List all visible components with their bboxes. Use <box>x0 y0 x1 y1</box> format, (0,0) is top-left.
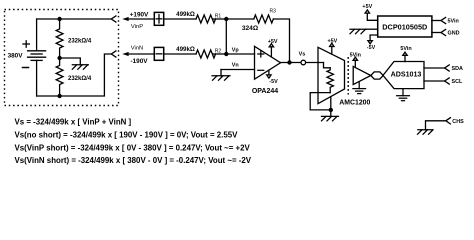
AMC output triangle <box>353 66 371 84</box>
connector VinN <box>111 51 116 57</box>
svg-text:+5V: +5V <box>268 39 278 45</box>
wire box2 to R2 <box>164 53 196 55</box>
resistor R1 <box>196 15 216 23</box>
svg-text:VinN: VinN <box>131 46 143 52</box>
AMC internal resistor <box>327 68 333 93</box>
connector 5Vin <box>441 17 446 23</box>
earth ground ADS <box>397 89 410 101</box>
opamp +5V supply <box>269 44 273 57</box>
wire top rail <box>37 18 112 20</box>
svg-text:Vp: Vp <box>232 47 240 53</box>
svg-text:CHS: CHS <box>452 119 464 125</box>
svg-text:Vs(VinN short) = -324/499k x [: Vs(VinN short) = -324/499k x [ 380V - 0V… <box>15 156 252 165</box>
wire node link vertical <box>225 19 227 54</box>
svg-text:499kΩ: 499kΩ <box>176 46 195 53</box>
svg-text:ADS1013: ADS1013 <box>391 70 422 78</box>
svg-text:GND: GND <box>448 31 460 37</box>
wire to chassis <box>330 110 332 117</box>
wire Vn down <box>220 70 222 76</box>
resistor R3 <box>254 15 274 23</box>
svg-text:Vs = -324/499k x [ VinP + VinN: Vs = -324/499k x [ VinP + VinN ] <box>15 118 132 127</box>
svg-text:5Vin: 5Vin <box>400 46 411 52</box>
resistor R2 <box>196 50 216 58</box>
svg-text:SDA: SDA <box>452 66 463 72</box>
svg-text:232kΩ/4: 232kΩ/4 <box>68 76 92 82</box>
svg-text:R3: R3 <box>270 9 277 15</box>
node Vs open <box>301 60 306 65</box>
chassis ground CHS <box>418 130 434 135</box>
wire CHS <box>426 121 446 130</box>
summing box minus <box>154 47 163 60</box>
node mid <box>57 56 61 60</box>
chassis ground AMC <box>322 116 339 121</box>
DCP -5V out <box>368 35 378 44</box>
chassis ground DCP <box>350 29 366 34</box>
wire bottom rail <box>37 54 112 96</box>
svg-text:VinP: VinP <box>131 24 143 30</box>
svg-text:499kΩ: 499kΩ <box>176 11 195 18</box>
wire SDA <box>424 67 445 69</box>
connector CHS <box>446 118 451 124</box>
svg-text:324Ω: 324Ω <box>242 25 259 32</box>
svg-text:-5V: -5V <box>367 45 376 51</box>
wire R1 to node <box>213 18 227 20</box>
svg-text:OPA244: OPA244 <box>252 88 278 95</box>
svg-text:SCL: SCL <box>452 79 463 85</box>
node top <box>57 17 61 21</box>
svg-text:+5V: +5V <box>362 4 372 10</box>
resistor R lower 232k/4 <box>56 58 63 96</box>
node bottom <box>57 94 61 98</box>
svg-text:+5V: +5V <box>328 38 338 44</box>
wire Vn to opamp <box>221 69 255 71</box>
AMC gnd pin <box>330 97 332 110</box>
connector SCL <box>445 78 450 84</box>
DC-DC U3 DCP010505D <box>378 16 432 37</box>
AMC +5V supply <box>330 43 334 54</box>
earth ground AMC out <box>353 82 366 94</box>
svg-text:5Vin: 5Vin <box>448 19 459 25</box>
node out <box>287 60 291 64</box>
wire SCL <box>424 80 445 82</box>
svg-text:380V: 380V <box>8 53 24 60</box>
svg-text:5Vin: 5Vin <box>350 52 361 58</box>
crossed output wires <box>371 72 383 79</box>
resistor R upper 232k/4 <box>56 19 63 58</box>
node R1 out <box>224 17 228 21</box>
battery V1 380V <box>23 19 46 96</box>
svg-text:AMC1200: AMC1200 <box>339 100 370 107</box>
ADS 5Vin supply <box>403 52 407 61</box>
wire opamp out <box>281 62 302 64</box>
svg-text:Vs(VinP short) = -324/499k x [: Vs(VinP short) = -324/499k x [ 0V - 380V… <box>15 143 251 152</box>
AMC input low loop <box>310 93 331 110</box>
AMC input step <box>324 63 331 68</box>
isolation amp U2 AMC1200 <box>318 47 345 103</box>
wire R3 to output <box>273 19 289 63</box>
ADC U4 ADS1013 <box>383 62 424 89</box>
op-amp U1 OPA244 <box>255 46 281 79</box>
connector SDA <box>445 65 450 71</box>
wire node to R3 <box>226 18 254 20</box>
svg-text:-5V: -5V <box>269 79 278 85</box>
wire R2 to node <box>213 53 227 55</box>
wire box1 to R1 <box>164 18 196 20</box>
svg-text:Vs(no short) = -324/499k x [ 1: Vs(no short) = -324/499k x [ 190V - 190V… <box>15 130 239 139</box>
DCP common out <box>366 28 378 30</box>
DCP +5V out <box>365 10 378 20</box>
svg-text:+190V: +190V <box>130 12 149 19</box>
connector GND <box>441 29 446 35</box>
svg-text:DCP010505D: DCP010505D <box>382 22 427 31</box>
opamp -5V supply <box>267 70 271 78</box>
DCP GND pin wire <box>432 32 441 34</box>
node Vp <box>224 52 228 56</box>
wire mid to ground <box>60 58 81 65</box>
node AMC gnd <box>329 108 333 112</box>
svg-text:232kΩ/4: 232kΩ/4 <box>68 38 92 44</box>
chassis ground Vn <box>212 76 230 81</box>
summing box plus <box>154 12 163 25</box>
svg-text:-190V: -190V <box>130 58 148 65</box>
dashed high-voltage box <box>5 10 119 106</box>
connector VinP <box>111 16 116 22</box>
svg-text:Vs: Vs <box>299 52 306 58</box>
wire Vs to AMC <box>306 62 324 64</box>
isolation barrier <box>347 57 349 95</box>
wire Vp to opamp <box>226 53 254 55</box>
chassis ground mid <box>72 65 88 70</box>
svg-text:Vn: Vn <box>232 62 239 68</box>
arrow VinN <box>122 52 154 56</box>
DCP 5Vin pin wire <box>432 20 441 22</box>
arrow VinP <box>122 17 154 21</box>
AMC 5Vin supply <box>353 57 357 67</box>
